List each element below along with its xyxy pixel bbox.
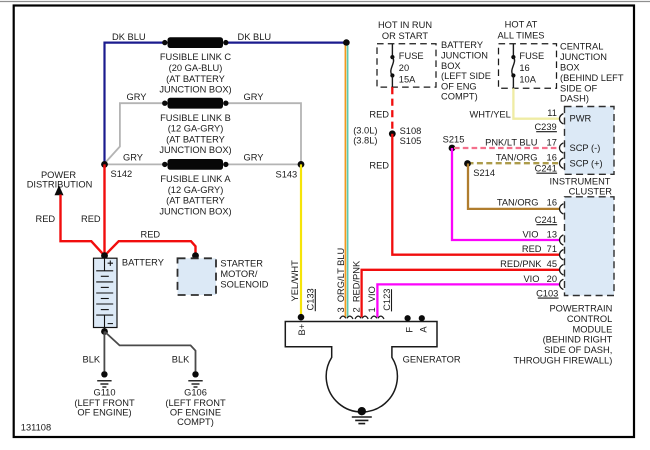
svg-text:CONTROL: CONTROL <box>567 314 612 324</box>
wire RED dashed from fuse <box>391 87 393 132</box>
svg-text:MOTOR/: MOTOR/ <box>220 269 257 279</box>
svg-text:DK BLU: DK BLU <box>112 32 146 42</box>
svg-text:(AT BATTERY: (AT BATTERY <box>166 74 225 84</box>
node DK BLU / ORG junction <box>343 39 350 46</box>
svg-text:131108: 131108 <box>21 423 51 433</box>
svg-text:RED: RED <box>369 110 389 120</box>
svg-text:BOX: BOX <box>441 61 461 71</box>
svg-text:RED: RED <box>81 214 101 224</box>
svg-text:(3.0L): (3.0L) <box>353 126 377 136</box>
svg-text:C239: C239 <box>534 122 556 132</box>
svg-text:BLK: BLK <box>172 355 190 365</box>
svg-text:C241: C241 <box>535 215 557 225</box>
svg-text:JUNCTION: JUNCTION <box>441 51 488 61</box>
svg-text:SIDE OF: SIDE OF <box>560 83 598 93</box>
svg-text:(LEFT FRONT: (LEFT FRONT <box>165 398 226 408</box>
svg-text:DASH): DASH) <box>560 94 589 104</box>
generator body <box>285 322 437 413</box>
svg-text:13: 13 <box>547 229 557 239</box>
svg-text:VIO: VIO <box>523 274 539 284</box>
svg-text:20: 20 <box>547 274 557 284</box>
svg-text:BATTERY: BATTERY <box>441 40 483 50</box>
wire PNK/LT BLU dashed <box>454 147 560 149</box>
svg-text:3 ORG/LT BLU: 3 ORG/LT BLU <box>336 248 346 313</box>
wire GRY link B left <box>105 103 165 162</box>
svg-text:10A: 10A <box>519 74 536 84</box>
generator ground <box>358 407 366 415</box>
svg-text:(20 GA-BLU): (20 GA-BLU) <box>169 63 223 73</box>
outer top rule <box>0 1 650 3</box>
svg-text:SCP (+): SCP (+) <box>570 159 603 169</box>
svg-text:FUSIBLE LINK C: FUSIBLE LINK C <box>160 52 232 62</box>
svg-text:(LEFT SIDE: (LEFT SIDE <box>441 71 491 81</box>
wire GRY link A left <box>105 163 165 165</box>
wire TAN/ORG dashed <box>468 162 560 164</box>
svg-text:(12 GA-GRY): (12 GA-GRY) <box>168 185 224 195</box>
fusible link C <box>162 40 167 45</box>
svg-text:GRY: GRY <box>244 153 264 163</box>
svg-text:VIO: VIO <box>522 229 538 239</box>
svg-text:JUNCTION BOX): JUNCTION BOX) <box>159 85 231 95</box>
fuse 16 10A <box>512 44 514 57</box>
wire BLK battery to G110 <box>103 332 105 372</box>
battery minus mark <box>108 323 113 325</box>
ground G106 <box>192 371 198 377</box>
svg-text:G110: G110 <box>93 388 115 398</box>
instrument cluster box upper <box>565 107 615 175</box>
svg-text:1 VIO: 1 VIO <box>367 286 377 312</box>
svg-text:BLK: BLK <box>83 355 101 365</box>
svg-text:FUSE: FUSE <box>519 51 544 61</box>
splice S108 S105 <box>389 130 396 137</box>
svg-text:RED: RED <box>141 230 161 240</box>
svg-text:TAN/ORG: TAN/ORG <box>496 153 538 163</box>
wire BLK battery to G106 <box>105 332 196 372</box>
splice S142 <box>101 161 108 168</box>
svg-text:CLUSTER: CLUSTER <box>569 187 613 197</box>
svg-text:GRY: GRY <box>127 92 147 102</box>
starter motor/solenoid box <box>178 258 217 295</box>
svg-text:GENERATOR: GENERATOR <box>403 354 461 364</box>
svg-text:ALL TIMES: ALL TIMES <box>497 30 544 40</box>
svg-text:CENTRAL: CENTRAL <box>560 42 603 52</box>
svg-text:YEL/WHT: YEL/WHT <box>290 260 300 302</box>
wire RED S142 to battery <box>103 164 105 255</box>
svg-text:FUSE: FUSE <box>399 51 424 61</box>
svg-text:BOX: BOX <box>560 63 580 73</box>
svg-text:RED/PNK: RED/PNK <box>500 259 542 269</box>
svg-text:(3.8L): (3.8L) <box>353 136 377 146</box>
fusible link B <box>162 101 167 106</box>
svg-text:THROUGH FIREWALL): THROUGH FIREWALL) <box>513 356 612 366</box>
svg-text:S108: S108 <box>400 126 422 136</box>
svg-text:B+: B+ <box>297 324 307 336</box>
generator pin 3 <box>340 316 353 319</box>
generator pin 2 <box>355 316 368 319</box>
svg-text:SIDE OF DASH,: SIDE OF DASH, <box>544 345 612 355</box>
node battery positive <box>101 252 108 259</box>
svg-text:HOT AT: HOT AT <box>505 20 538 30</box>
svg-text:GRY: GRY <box>244 92 264 102</box>
wire TAN/ORG solid to pin 16 <box>468 164 560 209</box>
svg-text:(BEHIND LEFT: (BEHIND LEFT <box>560 73 624 83</box>
svg-text:A: A <box>419 326 429 333</box>
svg-text:OR START: OR START <box>382 31 428 41</box>
svg-text:PWR: PWR <box>570 113 592 123</box>
svg-text:STARTER: STARTER <box>220 259 263 269</box>
wire DK BLU vertical <box>105 43 165 165</box>
svg-text:JUNCTION BOX): JUNCTION BOX) <box>159 145 231 155</box>
svg-text:PNK/LT BLU: PNK/LT BLU <box>485 137 537 147</box>
svg-text:RED: RED <box>522 244 542 254</box>
svg-text:JUNCTION: JUNCTION <box>560 52 607 62</box>
wire ORG/LT BLU (two-tone) <box>344 46 346 318</box>
fusible link A <box>162 162 167 167</box>
svg-text:RED: RED <box>36 214 56 224</box>
splice S214 <box>464 160 471 167</box>
svg-text:(LEFT FRONT: (LEFT FRONT <box>74 398 135 408</box>
wire VIO to pin 20 <box>377 284 559 317</box>
wire RED to power distribution <box>61 195 105 256</box>
battery <box>94 258 118 327</box>
wire YEL/WHT <box>300 164 302 317</box>
svg-text:POWERTRAIN: POWERTRAIN <box>549 304 612 314</box>
svg-text:S214: S214 <box>473 168 495 178</box>
svg-text:20: 20 <box>399 63 409 73</box>
svg-text:(12 GA-GRY): (12 GA-GRY) <box>168 124 224 134</box>
fuse 20 15A <box>391 44 393 57</box>
splice S143 <box>298 161 305 168</box>
svg-text:16: 16 <box>519 63 529 73</box>
wire DK BLU right segment <box>226 41 345 43</box>
splice S215 <box>449 145 456 152</box>
powertrain control module box <box>565 197 615 296</box>
svg-text:S142: S142 <box>111 169 133 179</box>
svg-text:17: 17 <box>547 137 557 147</box>
svg-text:WHT/YEL: WHT/YEL <box>469 110 510 120</box>
svg-text:71: 71 <box>547 244 557 254</box>
svg-text:15A: 15A <box>399 74 416 84</box>
svg-text:F: F <box>405 327 415 333</box>
wire VIO to pin 13 <box>452 148 560 240</box>
svg-text:TAN/ORG: TAN/ORG <box>497 198 539 208</box>
svg-text:S143: S143 <box>276 170 298 180</box>
svg-text:FUSIBLE LINK B: FUSIBLE LINK B <box>160 113 231 123</box>
svg-text:OF ENG: OF ENG <box>441 81 477 91</box>
wire RED/PNK to pin 45 <box>362 270 560 317</box>
svg-text:HOT IN RUN: HOT IN RUN <box>378 20 432 30</box>
svg-text:RED: RED <box>369 160 389 170</box>
svg-text:S105: S105 <box>400 136 422 146</box>
svg-text:11: 11 <box>547 108 557 118</box>
generator pin 1 <box>371 316 384 319</box>
svg-text:C241: C241 <box>535 163 557 173</box>
svg-text:C123: C123 <box>382 289 392 311</box>
central junction box (dashed) <box>499 44 557 89</box>
svg-text:DK BLU: DK BLU <box>238 32 272 42</box>
arrow to power distribution <box>55 185 64 195</box>
svg-text:S215: S215 <box>443 135 465 145</box>
svg-text:(BEHIND RIGHT: (BEHIND RIGHT <box>543 335 613 345</box>
svg-text:BATTERY: BATTERY <box>122 257 164 267</box>
svg-text:GRY: GRY <box>123 153 143 163</box>
wire GRY link B right <box>226 103 301 162</box>
node A <box>419 315 425 321</box>
node generator B+ <box>298 314 305 321</box>
wire RED battery to starter <box>105 241 196 256</box>
svg-text:COMPT): COMPT) <box>441 92 478 102</box>
wire GRY link A right <box>226 163 301 165</box>
wire WHT/YEL <box>513 88 559 118</box>
svg-text:SOLENOID: SOLENOID <box>220 279 268 289</box>
svg-text:MODULE: MODULE <box>573 324 613 334</box>
node F <box>405 315 411 321</box>
battery junction box (dashed) <box>377 44 436 87</box>
svg-text:G106: G106 <box>184 388 207 398</box>
svg-text:OF ENGINE): OF ENGINE) <box>77 408 131 418</box>
svg-text:(AT BATTERY: (AT BATTERY <box>166 196 225 206</box>
svg-text:INSTRUMENT: INSTRUMENT <box>550 176 611 186</box>
battery plus mark <box>108 261 113 266</box>
svg-text:16: 16 <box>547 198 557 208</box>
node starter feed <box>192 252 199 259</box>
svg-text:JUNCTION BOX): JUNCTION BOX) <box>159 206 231 216</box>
svg-text:C133: C133 <box>306 288 316 310</box>
svg-text:COMPT): COMPT) <box>177 417 214 427</box>
svg-text:2 RED/PNK: 2 RED/PNK <box>352 260 362 312</box>
svg-text:(AT BATTERY: (AT BATTERY <box>166 134 225 144</box>
svg-text:FUSIBLE LINK A: FUSIBLE LINK A <box>160 174 231 184</box>
svg-text:SCP (-): SCP (-) <box>570 143 601 153</box>
svg-text:C103: C103 <box>536 288 558 298</box>
ground G110 <box>101 371 107 377</box>
node battery negative <box>101 328 108 335</box>
svg-text:16: 16 <box>547 153 557 163</box>
wire RED to pin 71 <box>392 134 559 255</box>
svg-text:45: 45 <box>547 259 557 269</box>
